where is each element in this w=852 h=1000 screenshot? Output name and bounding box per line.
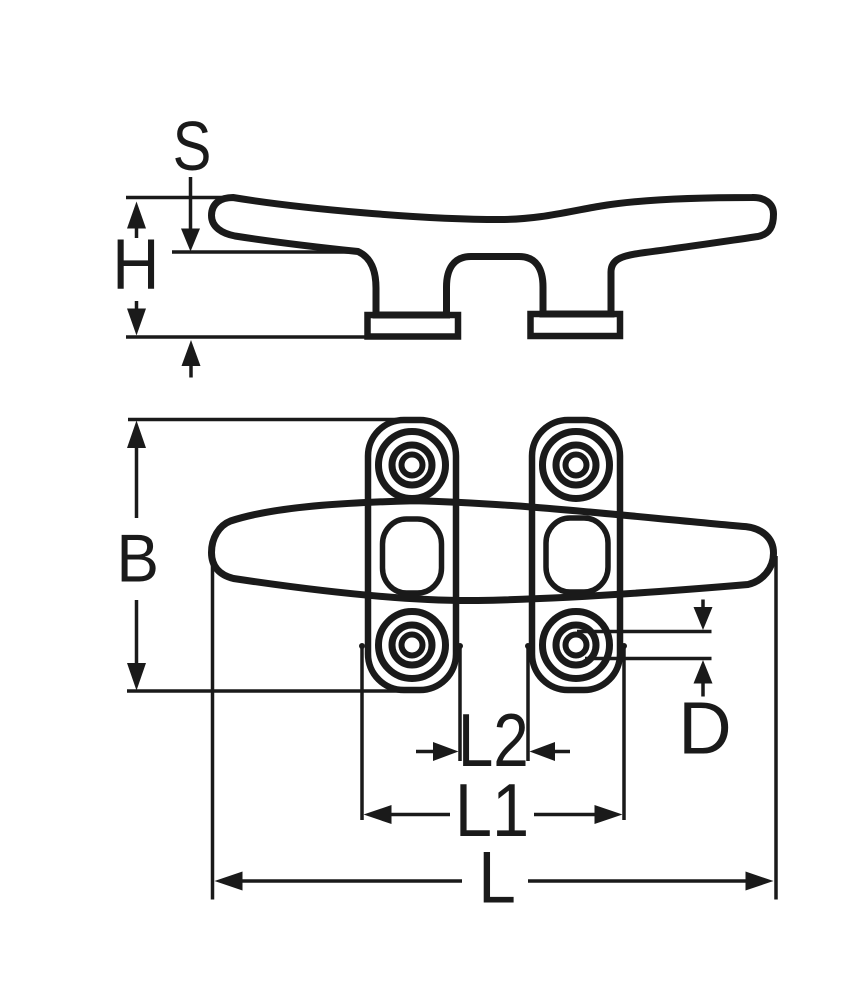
- L2 right extension dot: [525, 643, 531, 649]
- left mounting pad: [368, 420, 456, 690]
- L1 left extension dot: [359, 643, 365, 649]
- L2 right arrow (points left): [530, 742, 571, 761]
- left pad top bolt hole: [379, 432, 446, 499]
- B dimension line with arrows: [127, 421, 146, 691]
- S arrow down: [181, 177, 200, 252]
- left oval slot: [383, 519, 442, 593]
- H bottom arrow (down): [127, 301, 146, 336]
- right mounting pad: [532, 420, 620, 690]
- D down arrow: [694, 600, 713, 631]
- B top extension line: [128, 418, 412, 422]
- dim extension line base (deck level): [126, 335, 372, 339]
- L1 left extension line: [360, 646, 364, 820]
- svg-text:D: D: [678, 686, 731, 769]
- L2 left extension line: [458, 646, 462, 761]
- D bottom tangent line: [585, 657, 712, 661]
- svg-text:S: S: [173, 107, 212, 185]
- dim extension line top (horn top level): [126, 196, 238, 200]
- L right extension line: [774, 556, 778, 900]
- base line up arrow: [182, 340, 201, 378]
- right foot plate: [531, 314, 621, 336]
- L left extension line: [211, 557, 215, 900]
- svg-text:L: L: [478, 836, 516, 918]
- L1 right extension dot: [621, 643, 627, 649]
- cleat plan view body: [212, 501, 774, 601]
- L1 right extension line: [622, 646, 626, 820]
- svg-text:B: B: [116, 520, 159, 596]
- H top arrow (up): [127, 202, 146, 239]
- L2 left extension dot: [457, 643, 463, 649]
- B bottom extension line: [127, 689, 405, 693]
- dim extension line mid (horn underside level): [172, 250, 360, 254]
- right oval slot: [546, 518, 608, 592]
- L dimension line with arrows: [215, 872, 774, 891]
- D up arrow: [694, 660, 713, 697]
- left foot plate: [368, 315, 459, 337]
- cleat side view silhouette: [212, 197, 774, 315]
- svg-text:H: H: [112, 226, 159, 305]
- right pad bottom bolt hole: [543, 612, 610, 679]
- L2 right extension line: [526, 646, 530, 761]
- left pad bottom bolt hole: [379, 612, 446, 679]
- L1 dimension line with arrows: [364, 805, 623, 824]
- D top tangent line: [577, 630, 712, 634]
- right pad top bolt hole: [543, 432, 610, 499]
- L2 left arrow (points right): [416, 742, 459, 761]
